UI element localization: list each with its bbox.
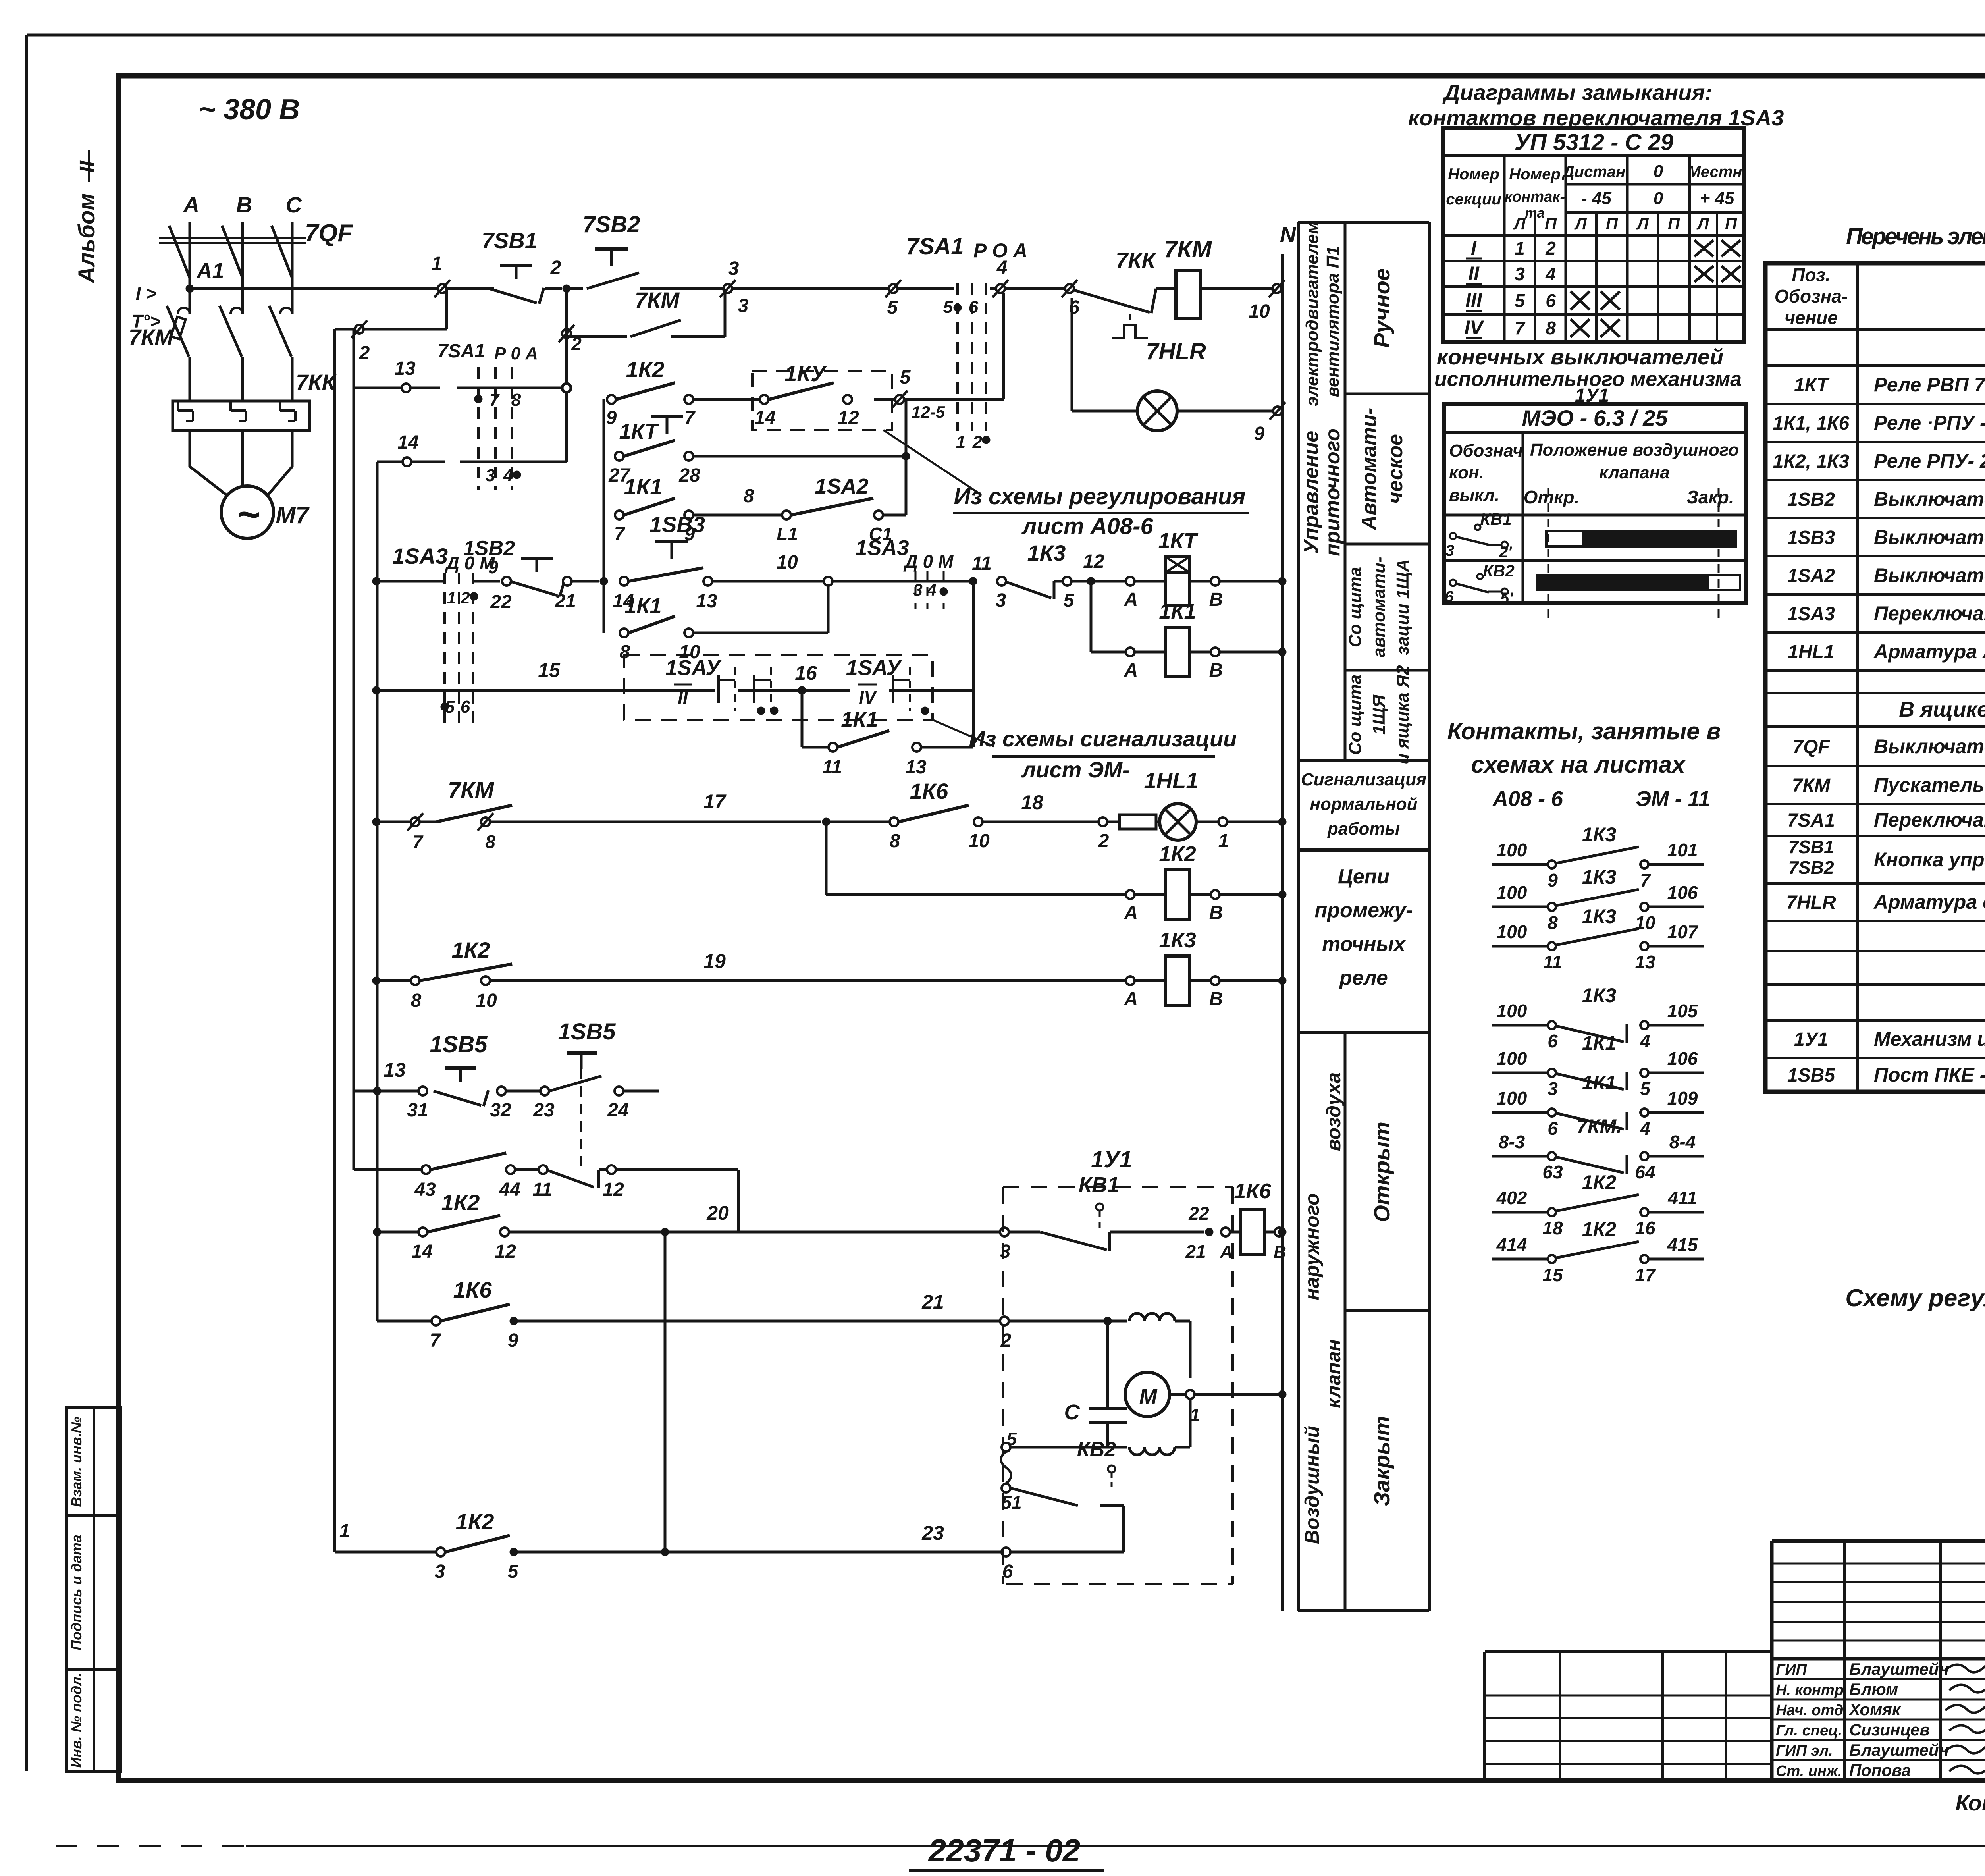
svg-text:Нач. отд.: Нач. отд. [1776, 1702, 1848, 1719]
svg-text:1SВ5: 1SВ5 [430, 1032, 488, 1057]
svg-text:415: 415 [1667, 1234, 1698, 1255]
svg-text:выкл.: выкл. [1449, 486, 1499, 505]
svg-text:109: 109 [1667, 1088, 1698, 1109]
svg-text:4: 4 [996, 257, 1008, 278]
svg-text:1SА3: 1SА3 [855, 536, 909, 560]
svg-text:Попова: Попова [1849, 1761, 1911, 1780]
svg-text:10: 10 [476, 990, 497, 1011]
svg-text:чение: чение [1785, 307, 1838, 328]
svg-text:11: 11 [1543, 952, 1562, 972]
svg-text:3: 3 [728, 258, 739, 279]
svg-text:7SВ2: 7SВ2 [1788, 857, 1834, 878]
svg-text:17: 17 [703, 791, 727, 813]
svg-text:1SВ3: 1SВ3 [1787, 527, 1835, 548]
svg-text:1К3: 1К3 [1582, 905, 1617, 927]
svg-text:13: 13 [905, 757, 927, 778]
svg-text:нормальной: нормальной [1310, 794, 1417, 814]
svg-text:Реле ·РПУ - 2 - 364 20 УЗ: Реле ·РПУ - 2 - 364 20 УЗ U ~ 220 В [1874, 412, 1985, 434]
svg-text:Номер: Номер [1448, 166, 1499, 183]
svg-text:1: 1 [447, 588, 456, 607]
svg-text:10: 10 [1249, 301, 1270, 322]
svg-text:лист А08-6: лист А08-6 [1021, 513, 1153, 539]
svg-text:4: 4 [1545, 264, 1556, 284]
svg-text:1SВ2: 1SВ2 [463, 537, 515, 560]
svg-text:КВ2: КВ2 [1077, 1438, 1116, 1461]
svg-text:1К1: 1К1 [624, 594, 661, 618]
svg-text:1К2: 1К2 [1582, 1171, 1617, 1193]
svg-text:6: 6 [969, 297, 979, 317]
svg-text:100: 100 [1497, 1088, 1527, 1109]
svg-text:1: 1 [956, 432, 966, 452]
svg-text:В: В [1209, 989, 1223, 1010]
svg-text:24: 24 [607, 1100, 628, 1121]
svg-text:III: III [1465, 289, 1482, 311]
svg-text:контак-: контак- [1505, 189, 1565, 205]
svg-text:15: 15 [538, 659, 561, 681]
svg-text:Альбом: Альбом [74, 193, 100, 284]
svg-text:Н. контр.: Н. контр. [1776, 1682, 1848, 1699]
svg-text:А: А [183, 192, 199, 217]
svg-text:наружного: наружного [1301, 1193, 1323, 1300]
svg-text:13: 13 [696, 591, 717, 612]
svg-text:ГИП эл.: ГИП эл. [1776, 1743, 1833, 1759]
svg-text:1К6: 1К6 [910, 779, 949, 804]
svg-text:Перечень элементов принципиа: Перечень элементов принципиальной схемы [1846, 224, 1985, 249]
svg-text:8: 8 [890, 831, 900, 852]
svg-text:конечных выключателей: конечных выключателей [1437, 344, 1723, 369]
svg-text:II: II [75, 160, 99, 173]
svg-text:11: 11 [972, 553, 992, 574]
svg-text:Инв. № подл.: Инв. № подл. [68, 1673, 85, 1768]
svg-text:7QF: 7QF [1792, 737, 1830, 758]
svg-text:7: 7 [1515, 318, 1526, 338]
svg-text:4: 4 [1640, 1031, 1650, 1051]
svg-text:32: 32 [490, 1100, 511, 1121]
svg-text:14: 14 [754, 407, 775, 428]
svg-text:1КТ: 1КТ [1794, 375, 1830, 396]
svg-text:Реле РВП 72 - 3121 - 00У4: Реле РВП 72 - 3121 - 00У4 U ~ 220 В [1874, 374, 1985, 396]
svg-text:12-5: 12-5 [912, 403, 945, 421]
svg-text:6: 6 [1548, 1118, 1558, 1139]
svg-text:1К2: 1К2 [456, 1509, 494, 1534]
svg-text:2: 2 [1098, 831, 1109, 852]
svg-text:П: П [1725, 214, 1737, 233]
svg-text:8-4: 8-4 [1669, 1132, 1696, 1152]
svg-text:воздуха: воздуха [1322, 1072, 1345, 1151]
svg-text:8: 8 [485, 831, 495, 852]
svg-text:12: 12 [1083, 551, 1104, 572]
svg-text:13: 13 [1635, 952, 1655, 972]
svg-text:Кнопка управления: Кнопка управления [1874, 848, 1985, 871]
svg-text:7SА1: 7SА1 [1787, 810, 1835, 831]
svg-text:2': 2' [1499, 544, 1512, 561]
svg-text:1К3: 1К3 [1582, 823, 1617, 846]
svg-text:Хомяк: Хомяк [1848, 1700, 1901, 1719]
svg-text:Копир. Вор: Копир. Вор [1955, 1790, 1985, 1815]
svg-text:I >: I > [136, 283, 156, 304]
svg-text:5: 5 [900, 367, 911, 388]
svg-text:2: 2 [1545, 238, 1556, 258]
svg-text:В: В [1209, 902, 1223, 924]
svg-text:1: 1 [1515, 238, 1525, 258]
svg-text:1SА2: 1SА2 [815, 474, 868, 498]
svg-text:1К2, 1К3: 1К2, 1К3 [1773, 451, 1850, 472]
svg-text:Автомати-: Автомати- [1358, 408, 1381, 531]
svg-text:Выключатель КЕ 011 УЗ Исп: Выключатель КЕ 011 УЗ Исп. 2 толк. черн. [1874, 526, 1985, 548]
svg-text:1SВ5: 1SВ5 [1787, 1065, 1835, 1086]
svg-text:Со щита: Со щита [1345, 675, 1365, 755]
svg-text:2: 2 [550, 257, 561, 278]
svg-text:Л: Л [1574, 214, 1587, 233]
svg-text:100: 100 [1497, 840, 1527, 860]
svg-text:3: 3 [1445, 542, 1454, 559]
svg-text:18: 18 [1542, 1218, 1563, 1238]
svg-text:28: 28 [678, 465, 700, 486]
svg-text:Р 0 А: Р 0 А [494, 344, 538, 363]
svg-text:+ 45: + 45 [1700, 189, 1734, 208]
svg-text:Обознач: Обознач [1449, 441, 1523, 461]
svg-text:Поз.: Поз. [1792, 264, 1830, 285]
svg-text:7: 7 [430, 1330, 441, 1351]
svg-text:Схему регулирования см.: Схему регулирования см. лист А08 - 6 [1845, 1284, 1985, 1312]
svg-text:1SАУ: 1SАУ [665, 656, 722, 680]
svg-text:17: 17 [1635, 1265, 1656, 1285]
svg-text:5: 5 [508, 1561, 519, 1582]
svg-text:Открыт: Открыт [1369, 1122, 1394, 1222]
svg-text:Переключатель: Переключатель [1874, 809, 1985, 831]
svg-text:4: 4 [927, 580, 936, 599]
svg-text:Арматура сигнальная: Арматура сигнальная [1873, 891, 1985, 913]
svg-text:7КМ: 7КМ [129, 324, 174, 349]
svg-text:23: 23 [533, 1100, 555, 1121]
svg-text:7КМ: 7КМ [635, 287, 680, 312]
svg-text:приточного: приточного [1321, 428, 1344, 556]
svg-text:IV: IV [859, 687, 877, 708]
svg-text:IV: IV [1464, 316, 1484, 339]
svg-text:В ящике 7ШУ ( Я5111 -: В ящике 7ШУ ( Я5111 - [1899, 698, 1985, 721]
svg-text:П: П [1545, 214, 1557, 233]
svg-text:Закрыт: Закрыт [1369, 1416, 1394, 1506]
svg-text:автомати-: автомати- [1369, 557, 1389, 657]
svg-text:8-3: 8-3 [1499, 1132, 1525, 1152]
svg-text:7SА1: 7SА1 [437, 341, 485, 362]
svg-text:9: 9 [1254, 423, 1265, 444]
svg-text:1К2: 1К2 [626, 357, 665, 382]
svg-text:1SВ5: 1SВ5 [558, 1019, 616, 1045]
svg-text:16: 16 [1635, 1218, 1655, 1238]
svg-text:43: 43 [414, 1179, 436, 1200]
svg-text:Выключатель ПВ1 - 10 Б U: Выключатель ПВ1 - 10 Б U ~ 220 В, 6 А [1874, 564, 1985, 586]
svg-text:8: 8 [411, 990, 422, 1011]
svg-text:1К2: 1К2 [452, 937, 490, 962]
svg-text:1К1: 1К1 [841, 708, 878, 731]
svg-text:44: 44 [499, 1179, 520, 1200]
svg-text:21: 21 [921, 1291, 944, 1313]
svg-text:1НL1: 1НL1 [1144, 768, 1199, 793]
svg-text:Арматура АС- 220, зелен.: Арматура АС- 220, зелен. U ~ 220 В [1873, 640, 1985, 663]
svg-text:Ручное: Ручное [1369, 268, 1394, 348]
svg-text:106: 106 [1667, 1048, 1698, 1069]
svg-text:11: 11 [532, 1179, 552, 1200]
svg-text:точных: точных [1322, 933, 1406, 956]
svg-text:6: 6 [461, 697, 470, 717]
svg-text:Д 0 М: Д 0 М [903, 551, 954, 572]
svg-text:Взам. инв.№: Взам. инв.№ [68, 1417, 85, 1507]
svg-text:1: 1 [432, 253, 442, 274]
svg-text:М7: М7 [276, 502, 310, 528]
svg-text:С: С [1064, 1400, 1080, 1424]
svg-text:3: 3 [1000, 1241, 1011, 1262]
svg-text:1К1: 1К1 [1582, 1032, 1616, 1054]
svg-text:С: С [286, 192, 303, 217]
svg-text:7: 7 [1640, 870, 1651, 891]
svg-text:1К1: 1К1 [624, 474, 663, 499]
svg-text:1К1, 1К6: 1К1, 1К6 [1773, 413, 1850, 434]
svg-text:Сизинцев: Сизинцев [1849, 1720, 1930, 1739]
svg-text:100: 100 [1497, 1048, 1527, 1069]
svg-text:2: 2 [359, 343, 370, 364]
svg-text:А: А [1124, 660, 1138, 681]
svg-text:411: 411 [1667, 1188, 1697, 1208]
svg-text:зации 1ЩА: зации 1ЩА [1393, 559, 1413, 655]
svg-text:Из схемы регулирования: Из схемы регулирования [954, 484, 1246, 509]
svg-text:реле: реле [1339, 966, 1388, 989]
svg-text:5: 5 [1064, 590, 1075, 611]
svg-text:ГИП: ГИП [1776, 1662, 1807, 1678]
svg-text:21: 21 [554, 591, 576, 612]
svg-text:I: I [1471, 237, 1477, 259]
svg-text:1К1: 1К1 [1582, 1072, 1616, 1094]
svg-text:МЭО - 6.3 / 25: МЭО - 6.3 / 25 [1522, 405, 1668, 430]
svg-text:7КМ.: 7КМ. [1576, 1115, 1622, 1138]
svg-text:В: В [1209, 660, 1223, 681]
svg-text:1К2: 1К2 [1159, 842, 1196, 866]
svg-text:7КМ: 7КМ [1792, 775, 1831, 796]
svg-text:12: 12 [495, 1241, 516, 1262]
svg-text:Блауштейн: Блауштейн [1849, 1660, 1949, 1678]
svg-text:~: ~ [237, 492, 260, 537]
svg-text:1ЩЯ: 1ЩЯ [1369, 694, 1389, 735]
svg-text:1К6: 1К6 [1234, 1179, 1271, 1203]
svg-text:12: 12 [838, 407, 859, 428]
svg-text:6: 6 [1546, 290, 1556, 311]
svg-text:1У1: 1У1 [1794, 1029, 1828, 1050]
svg-text:1КТ: 1КТ [1158, 529, 1199, 553]
svg-text:11: 11 [822, 757, 842, 778]
svg-text:Л: Л [1696, 214, 1709, 233]
svg-text:3: 3 [435, 1561, 445, 1582]
svg-text:Пускатель магнитный: Пускатель магнитный [1874, 774, 1985, 796]
svg-text:1У1: 1У1 [1091, 1147, 1132, 1172]
svg-text:5: 5 [1640, 1078, 1651, 1099]
svg-text:4: 4 [1640, 1118, 1650, 1139]
svg-text:Механизм исполнительный МЭ: Механизм исполнительный МЭО - 6,3 / 25 [1874, 1028, 1985, 1050]
svg-text:1К3: 1К3 [1582, 866, 1617, 888]
svg-text:Управление: Управление [1300, 431, 1323, 554]
svg-text:3: 3 [996, 590, 1006, 611]
svg-text:5': 5' [1500, 590, 1513, 607]
svg-text:1КТ: 1КТ [619, 420, 659, 443]
svg-text:Блюм: Блюм [1849, 1680, 1898, 1699]
svg-text:7КК: 7КК [1116, 248, 1157, 273]
svg-text:А: А [1220, 1242, 1233, 1262]
svg-text:14: 14 [411, 1241, 432, 1262]
svg-text:~ 380 В: ~ 380 В [199, 94, 300, 125]
svg-text:22371 - 02: 22371 - 02 [928, 1833, 1081, 1868]
svg-text:16: 16 [795, 662, 817, 684]
svg-text:1SВ3: 1SВ3 [649, 512, 705, 537]
svg-text:1К6: 1К6 [453, 1277, 492, 1302]
svg-text:7QF: 7QF [305, 220, 354, 247]
svg-text:8: 8 [511, 390, 521, 410]
svg-text:А08 - 6: А08 - 6 [1492, 787, 1563, 811]
svg-text:1: 1 [339, 1521, 350, 1542]
svg-text:10: 10 [968, 831, 990, 852]
svg-text:В: В [236, 192, 252, 217]
svg-text:8: 8 [744, 486, 754, 507]
svg-text:КВ1: КВ1 [1480, 510, 1512, 528]
svg-text:Контакты, занятые в: Контакты, занятые в [1447, 718, 1721, 744]
svg-text:Положение воздушного: Положение воздушного [1530, 440, 1739, 460]
svg-text:1К3: 1К3 [1027, 540, 1066, 565]
svg-text:УП 5312 - С 29: УП 5312 - С 29 [1515, 129, 1673, 155]
svg-text:- 45: - 45 [1581, 189, 1611, 208]
svg-text:А1: А1 [196, 259, 224, 283]
svg-text:клапан: клапан [1322, 1339, 1345, 1408]
svg-text:3: 3 [913, 580, 922, 599]
svg-text:Обозна-: Обозна- [1775, 286, 1848, 307]
svg-text:3: 3 [1515, 264, 1525, 284]
svg-text:2: 2 [972, 432, 983, 452]
svg-text:II: II [1468, 262, 1480, 285]
svg-text:19: 19 [703, 950, 726, 972]
svg-text:7КМ: 7КМ [1164, 236, 1212, 262]
svg-text:1К3: 1К3 [1582, 984, 1617, 1006]
svg-text:7: 7 [490, 390, 500, 410]
svg-text:Цепи: Цепи [1338, 865, 1389, 888]
svg-text:кон.: кон. [1449, 463, 1484, 482]
svg-text:8: 8 [1546, 318, 1556, 338]
svg-text:1К3: 1К3 [1159, 928, 1196, 952]
svg-text:Гл. спец.: Гл. спец. [1776, 1722, 1842, 1739]
svg-text:0: 0 [1654, 189, 1663, 208]
svg-text:7НLR: 7НLR [1786, 892, 1836, 913]
svg-text:лист ЭМ-: лист ЭМ- [1021, 757, 1129, 782]
svg-text:Переключатель УП5312 - С29: Переключатель УП5312 - С29 [1874, 602, 1985, 625]
svg-text:М: М [1139, 1385, 1158, 1409]
svg-text:15: 15 [1542, 1265, 1563, 1285]
svg-text:промежу-: промежу- [1314, 899, 1413, 922]
svg-text:1SВ2: 1SВ2 [1787, 489, 1835, 510]
svg-text:12: 12 [603, 1179, 624, 1200]
svg-text:4: 4 [503, 466, 513, 485]
svg-text:7НLR: 7НLR [1146, 339, 1206, 364]
svg-text:П: П [1668, 214, 1680, 233]
svg-text:14: 14 [397, 432, 418, 453]
svg-text:Откр.: Откр. [1524, 487, 1580, 507]
svg-text:1К2: 1К2 [1582, 1218, 1617, 1240]
svg-text:Реле РПУ- 2 - 366 20 УЗ: Реле РПУ- 2 - 366 20 УЗ U ~ 220 В [1874, 450, 1985, 472]
svg-text:21: 21 [1185, 1241, 1206, 1262]
svg-text:Пост ПКЕ - 222 - 2УЗ: Пост ПКЕ - 222 - 2УЗ [1874, 1064, 1985, 1086]
svg-text:7SВ1: 7SВ1 [1788, 837, 1834, 857]
svg-text:КВ1: КВ1 [1079, 1173, 1119, 1197]
svg-text:ЭМ - 11: ЭМ - 11 [1636, 787, 1710, 811]
svg-text:Со щита: Со щита [1345, 567, 1365, 648]
svg-text:1SА3: 1SА3 [392, 544, 448, 569]
svg-text:L1: L1 [777, 524, 798, 544]
svg-text:А: А [1124, 589, 1138, 610]
svg-text:414: 414 [1496, 1234, 1527, 1255]
svg-text:7КМ: 7КМ [448, 777, 495, 803]
svg-text:5: 5 [943, 297, 953, 317]
svg-text:2: 2 [460, 588, 470, 607]
svg-text:3: 3 [486, 466, 495, 485]
svg-text:107: 107 [1667, 922, 1699, 942]
svg-text:работы: работы [1327, 819, 1400, 839]
svg-text:вентилятора П1: вентилятора П1 [1323, 246, 1343, 397]
svg-text:51: 51 [1001, 1492, 1021, 1513]
svg-text:9: 9 [508, 1330, 518, 1351]
svg-text:22: 22 [1188, 1203, 1209, 1224]
svg-text:1К1: 1К1 [1159, 600, 1196, 623]
svg-text:7: 7 [614, 524, 626, 545]
svg-text:3: 3 [738, 295, 749, 316]
svg-text:схемах на листах: схемах на листах [1471, 751, 1686, 778]
svg-text:22: 22 [490, 592, 512, 613]
svg-text:1SА2: 1SА2 [1787, 565, 1835, 586]
svg-text:электродвигателем: электродвигателем [1303, 221, 1322, 406]
svg-text:1: 1 [1218, 831, 1229, 852]
svg-text:Местн.: Местн. [1687, 163, 1746, 181]
svg-text:100: 100 [1497, 922, 1527, 942]
svg-text:и ящика Я2: и ящика Я2 [1393, 665, 1413, 764]
svg-text:105: 105 [1667, 1001, 1698, 1021]
svg-text:101: 101 [1667, 840, 1698, 860]
svg-text:1НL1: 1НL1 [1788, 642, 1834, 663]
svg-text:В: В [1209, 589, 1223, 610]
svg-text:13: 13 [394, 358, 416, 379]
svg-text:Закр.: Закр. [1686, 487, 1734, 507]
svg-text:Л: Л [1513, 214, 1526, 233]
svg-text:клапана: клапана [1599, 463, 1670, 482]
svg-text:7: 7 [412, 831, 424, 852]
svg-text:Сигнализация: Сигнализация [1301, 770, 1426, 789]
svg-text:100: 100 [1497, 882, 1527, 903]
svg-text:5: 5 [1515, 290, 1525, 311]
svg-text:6: 6 [1548, 1031, 1558, 1051]
svg-text:63: 63 [1542, 1162, 1563, 1182]
svg-text:Диаграммы замыкания:: Диаграммы замыкания: [1442, 80, 1712, 105]
svg-text:7SВ1: 7SВ1 [482, 228, 537, 253]
svg-text:100: 100 [1497, 1001, 1527, 1021]
svg-text:23: 23 [921, 1522, 944, 1544]
svg-text:20: 20 [706, 1202, 729, 1224]
svg-text:64: 64 [1635, 1162, 1655, 1182]
svg-text:Выключатель автоматический: Выключатель автоматический [1874, 735, 1985, 758]
svg-text:Блауштейн: Блауштейн [1849, 1741, 1949, 1759]
svg-text:13: 13 [384, 1059, 406, 1081]
svg-text:7КК: 7КК [296, 370, 337, 395]
svg-text:В: В [1274, 1242, 1286, 1262]
svg-text:Ст. инж.: Ст. инж. [1776, 1763, 1842, 1780]
svg-text:Выключатель КЕ 011 УЗ Ис: Выключатель КЕ 011 УЗ Исп. 2 толк. красн… [1874, 488, 1985, 510]
svg-text:А: А [1124, 902, 1138, 924]
svg-text:5: 5 [887, 297, 898, 318]
svg-text:ческое: ческое [1384, 434, 1407, 504]
svg-text:31: 31 [407, 1100, 428, 1121]
svg-text:1К2: 1К2 [441, 1190, 480, 1215]
